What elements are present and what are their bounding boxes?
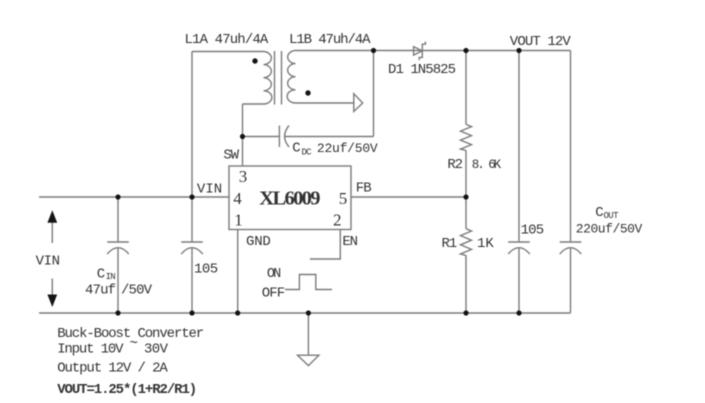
svg-text:5: 5 bbox=[339, 189, 348, 208]
svg-text:1: 1 bbox=[234, 210, 243, 229]
svg-text:R1: R1 bbox=[442, 236, 458, 252]
svg-text:ON: ON bbox=[267, 267, 281, 282]
svg-text:VOUT=1.25*(1+R2/R1): VOUT=1.25*(1+R2/R1) bbox=[57, 382, 197, 398]
svg-text:GND: GND bbox=[246, 234, 271, 250]
svg-text:EN: EN bbox=[342, 234, 358, 250]
svg-text:105: 105 bbox=[194, 261, 218, 277]
svg-text:OUT: OUT bbox=[604, 211, 620, 221]
svg-text:VIN: VIN bbox=[197, 182, 222, 198]
svg-text:XL6009: XL6009 bbox=[259, 187, 320, 209]
svg-text:220uf/50V: 220uf/50V bbox=[576, 222, 643, 237]
svg-text:C: C bbox=[292, 141, 300, 157]
svg-text:Input 10V: Input 10V bbox=[57, 342, 124, 358]
svg-text:30V: 30V bbox=[144, 342, 169, 358]
svg-text:C: C bbox=[97, 266, 105, 282]
svg-text:4: 4 bbox=[233, 189, 242, 208]
svg-text:47uf: 47uf bbox=[85, 283, 116, 299]
svg-text:~: ~ bbox=[130, 336, 138, 352]
svg-text:L1B 47uh/4A: L1B 47uh/4A bbox=[289, 32, 371, 48]
svg-text:VOUT 12V: VOUT 12V bbox=[510, 34, 572, 50]
svg-text:SW: SW bbox=[223, 148, 239, 164]
svg-text:8. 6K: 8. 6K bbox=[472, 158, 502, 172]
svg-text:OFF: OFF bbox=[262, 286, 285, 302]
svg-text:D1 1N5825: D1 1N5825 bbox=[388, 62, 456, 78]
svg-text:2: 2 bbox=[333, 210, 342, 229]
svg-text:R2: R2 bbox=[447, 157, 463, 173]
svg-text:3: 3 bbox=[239, 167, 248, 186]
svg-text:105: 105 bbox=[521, 223, 545, 239]
svg-text:IN: IN bbox=[106, 272, 116, 282]
svg-text:C: C bbox=[595, 205, 603, 221]
svg-text:L1A 47uh/4A: L1A 47uh/4A bbox=[185, 32, 269, 48]
svg-text:VIN: VIN bbox=[36, 254, 60, 270]
svg-text:1K: 1K bbox=[477, 236, 494, 252]
svg-text:FB: FB bbox=[356, 181, 372, 197]
svg-text:DC: DC bbox=[302, 148, 313, 158]
svg-text:22uf/50V: 22uf/50V bbox=[317, 141, 378, 156]
svg-text:Output 12V / 2A: Output 12V / 2A bbox=[57, 361, 168, 377]
svg-text:/50V: /50V bbox=[121, 283, 153, 299]
